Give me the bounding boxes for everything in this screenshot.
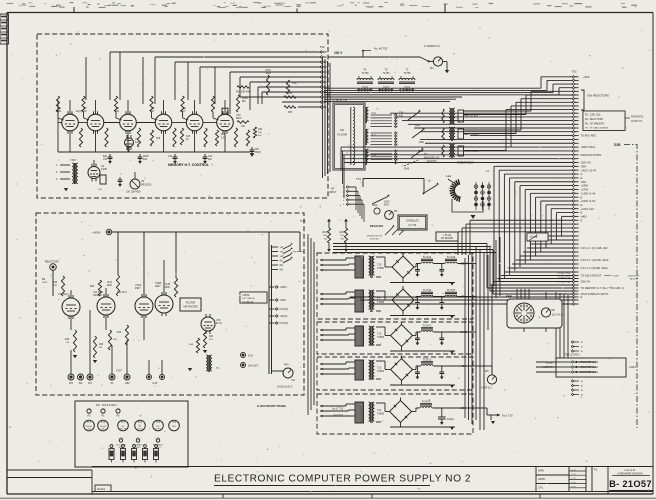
svg-text:-250V: -250V [280, 299, 287, 302]
svg-text:M4: M4 [430, 67, 434, 70]
svg-text:TX866: TX866 [377, 336, 385, 339]
svg-text:R32: R32 [258, 129, 263, 131]
svg-text:6.3V A.C. (2)CAB. 4&3A: 6.3V A.C. (2)CAB. 4&3A [581, 258, 609, 262]
svg-text:R36: R36 [99, 344, 104, 346]
svg-text:STABILAC: STABILAC [406, 219, 419, 223]
svg-text:TO MEMORY H.T. (No.7 T54 CA: TO MEMORY H.T. (No.7 T54 CAB. 4) [581, 286, 624, 290]
svg-text:FROM T57 No.12: FROM T57 No.12 [580, 372, 599, 374]
svg-text:Le4: Le4 [446, 174, 451, 178]
svg-text:+270V: +270V [581, 188, 589, 192]
svg-text:& ON FRONT PANEL: & ON FRONT PANEL [257, 404, 287, 408]
svg-text:DRN: DRN [538, 469, 544, 473]
svg-text:B- 21O57: B- 21O57 [609, 479, 652, 489]
svg-text:SW1: SW1 [384, 205, 390, 207]
svg-text:TC132: TC132 [447, 255, 456, 259]
svg-text:6.3V: 6.3V [152, 382, 157, 385]
svg-text:230 V: 230 V [334, 51, 343, 55]
svg-text:NETWORK: NETWORK [183, 305, 197, 309]
svg-text:TC737: TC737 [447, 288, 456, 292]
svg-text:6.3V: 6.3V [248, 355, 253, 358]
svg-text:ON BOARD: ON BOARD [441, 237, 454, 240]
svg-text:6.3V A.C (3)CAB. 5&4A: 6.3V A.C (3)CAB. 5&4A [581, 266, 609, 270]
svg-text:-280: -280 [124, 382, 130, 385]
svg-text:+660V MCA.: +660V MCA. [581, 145, 597, 149]
svg-text:RF4: RF4 [284, 364, 289, 367]
svg-text:W2: W2 [79, 382, 83, 385]
svg-text:HARDWARE DIVISION: HARDWARE DIVISION [617, 473, 642, 476]
svg-text:46N7: 46N7 [135, 288, 141, 290]
svg-text:CAB 1: CAB 1 [629, 365, 637, 369]
svg-text:DRUM MOTORS: DRUM MOTORS [581, 153, 602, 157]
svg-text:VR150/30: VR150/30 [141, 184, 152, 186]
svg-text:C.H.A.D.: C.H.A.D. [624, 468, 635, 472]
svg-text:SW6: SW6 [506, 295, 512, 299]
svg-text:100V: 100V [384, 201, 390, 204]
svg-text:E: E [581, 218, 583, 222]
svg-text:1000000: 1000000 [93, 295, 103, 297]
svg-text:100R: 100R [42, 282, 47, 284]
svg-text:FROM: FROM [243, 295, 250, 297]
svg-text:FIL. VOLTS ADJ.: FIL. VOLTS ADJ. [96, 403, 117, 407]
svg-text:No. 46 T53: No. 46 T53 [374, 47, 388, 51]
svg-text:R16: R16 [156, 138, 161, 140]
svg-text:360R: 360R [143, 156, 149, 158]
svg-text:TO No.7 T54: TO No.7 T54 [557, 273, 570, 275]
svg-text:C14: C14 [208, 156, 213, 158]
svg-text:E: E [581, 176, 583, 180]
svg-text:(2)310V HT: (2)310V HT [628, 276, 640, 278]
svg-text:ELECTRONIC COMPUTER POWER SUPP: ELECTRONIC COMPUTER POWER SUPPLY NO 2 [214, 474, 471, 485]
svg-text:TX860: TX860 [377, 412, 385, 415]
svg-text:A.C.: A.C. [372, 133, 377, 137]
svg-text:1K: 1K [186, 139, 189, 141]
svg-text:FROM T57 No.11: FROM T57 No.11 [580, 367, 599, 369]
svg-text:R18: R18 [221, 134, 226, 136]
svg-text:49 50 48: 49 50 48 [370, 239, 379, 241]
svg-text:E: E [581, 195, 583, 199]
svg-text:+250V: +250V [280, 286, 288, 289]
svg-text:AUTO TX: AUTO TX [631, 119, 642, 123]
svg-text:FLOOR: FLOOR [338, 133, 348, 137]
svg-text:SCALE: SCALE [97, 488, 106, 491]
svg-text:A.C.: A.C. [372, 111, 377, 115]
svg-text:R42: R42 [209, 336, 214, 338]
svg-text:VOLTS: VOLTS [120, 429, 127, 431]
svg-text:No.6 T51: No.6 T51 [334, 415, 344, 417]
svg-text:R11 15R 9W: R11 15R 9W [236, 91, 250, 94]
svg-text:10K: 10K [292, 81, 297, 85]
svg-text:+240V: +240V [581, 184, 589, 188]
svg-text:+80V: +80V [581, 215, 588, 219]
svg-text:C10: C10 [103, 159, 108, 161]
svg-text:No.1 T53: No.1 T53 [502, 414, 513, 418]
svg-text:R41: R41 [107, 281, 112, 284]
svg-text:CPL: CPL [538, 486, 544, 490]
svg-text:360R: 360R [255, 152, 261, 154]
svg-text:FROM FIL.: FROM FIL. [631, 115, 644, 119]
svg-text:TX868: TX868 [377, 301, 385, 304]
svg-text:REACTOR I: REACTOR I [45, 260, 60, 264]
svg-text:FIL TX(BO4): FIL TX(BO4) [243, 298, 256, 300]
svg-text:6YT8: 6YT8 [300, 221, 306, 223]
svg-text:FROM T57 No.10: FROM T57 No.10 [580, 362, 599, 364]
svg-text:-80V: -80V [581, 180, 587, 184]
svg-text:TL35R: TL35R [612, 276, 619, 278]
svg-text:FROM T58 T52: FROM T58 T52 [367, 236, 383, 238]
svg-text:ON: ON [340, 128, 344, 132]
svg-text:MEMORY H.T. CONTROL: MEMORY H.T. CONTROL [168, 163, 210, 167]
svg-text:ION REACTORS: ION REACTORS [587, 94, 609, 98]
svg-text:100R: 100R [52, 285, 57, 287]
svg-text:TEST: TEST [116, 371, 122, 373]
svg-text:6.3V A.C. (1) CAB. 2&3: 6.3V A.C. (1) CAB. 2&3 [581, 246, 609, 250]
svg-text:T52: T52 [320, 45, 325, 49]
svg-text:R39: R39 [117, 332, 122, 334]
svg-text:V11 6SL7: V11 6SL7 [58, 293, 69, 296]
svg-text:1M: 1M [99, 347, 102, 349]
svg-text:+130V O-4A: +130V O-4A [581, 191, 596, 195]
svg-text:R15: R15 [186, 136, 191, 138]
svg-text:TX750: TX750 [403, 72, 411, 75]
svg-text:W3: W3 [69, 382, 73, 385]
svg-text:T53: T53 [572, 70, 577, 74]
svg-text:CONT: CONT [137, 429, 143, 431]
svg-text:5.2K: 5.2K [221, 137, 226, 139]
svg-text:R20: R20 [340, 232, 345, 234]
svg-text:TO FIL: TO FIL [545, 362, 553, 365]
svg-text:1W: 1W [66, 342, 69, 344]
svg-text:R38: R38 [65, 339, 70, 341]
svg-text:8µF: 8µF [103, 156, 108, 158]
svg-text:6M: 6M [42, 279, 45, 281]
svg-text:APPD: APPD [538, 477, 545, 481]
svg-text:Dynamotor: Dynamotor [293, 250, 304, 253]
svg-text:E: E [581, 211, 583, 215]
svg-text:TX750: TX750 [382, 72, 390, 75]
svg-text:15K: 15K [288, 110, 293, 114]
svg-text:FIL. OF MEMORY: FIL. OF MEMORY [585, 122, 605, 125]
svg-text:0-600 D.C.: 0-600 D.C. [481, 387, 493, 390]
svg-text:+8V(S): +8V(S) [280, 315, 288, 318]
svg-text:FIL. REACTORS: FIL. REACTORS [585, 118, 603, 121]
svg-text:scale: scale [571, 478, 577, 480]
svg-text:TC731: TC731 [423, 288, 432, 292]
svg-text:V16A: V16A [135, 284, 141, 287]
svg-text:A: A [581, 172, 583, 176]
svg-text:-100V: -100V [460, 330, 468, 334]
svg-text:R27: R27 [255, 149, 260, 151]
svg-text:8µF: 8µF [208, 159, 213, 161]
svg-text:+80V: +80V [583, 75, 590, 79]
svg-text:1005: 1005 [265, 72, 271, 75]
svg-text:V16B: V16B [155, 282, 161, 285]
svg-text:-240V 1.5YR: -240V 1.5YR [581, 168, 596, 172]
svg-text:TF884: TF884 [377, 370, 385, 373]
svg-text:TF866: TF866 [377, 267, 385, 270]
svg-text:+100V 12A: +100V 12A [581, 207, 595, 211]
svg-text:100K: 100K [107, 285, 113, 287]
svg-text:R40: R40 [90, 286, 95, 288]
svg-text:TC472: TC472 [423, 323, 432, 327]
svg-text:scale: scale [571, 486, 577, 488]
svg-text:TO 80V. REG.: TO 80V. REG. [581, 134, 598, 138]
svg-text:+660V: +660V [92, 231, 101, 235]
svg-text:T54 (CONT): T54 (CONT) [564, 353, 579, 357]
svg-text:130V 4A: 130V 4A [581, 161, 592, 165]
svg-text:FIL. CAB. 2&3: FIL. CAB. 2&3 [585, 114, 601, 117]
svg-text:R66: R66 [419, 140, 424, 144]
svg-text:0-200 µA D.C.: 0-200 µA D.C. [277, 385, 294, 389]
svg-text:E: E [581, 203, 583, 207]
svg-text:CONT: CONT [155, 429, 161, 431]
svg-text:10K: 10K [241, 125, 246, 128]
svg-text:TO 310V ADJUST: TO 310V ADJUST [581, 274, 602, 278]
svg-text:scale: scale [571, 482, 577, 484]
svg-text:65N7: 65N7 [236, 117, 242, 120]
svg-text:4KVA STABILAC INPUT: 4KVA STABILAC INPUT [581, 292, 609, 296]
svg-text:6L7N: 6L7N [216, 323, 222, 325]
svg-text:+380V: +380V [460, 262, 469, 266]
svg-text:TX750: TX750 [361, 72, 369, 75]
svg-text:46N7: 46N7 [155, 286, 161, 288]
svg-text:INPUT: INPUT [329, 191, 337, 194]
svg-text:-80V: -80V [581, 164, 587, 168]
svg-text:100µF: 100µF [447, 418, 455, 421]
svg-text:scale: scale [571, 469, 577, 471]
svg-text:T-66Y: T-66Y [70, 160, 77, 162]
svg-text:R19: R19 [323, 232, 328, 234]
svg-text:IN CAB 2A: IN CAB 2A [243, 300, 254, 303]
svg-text:+50: +50 [460, 406, 465, 410]
svg-text:FIL. OF CAB.4 &DRUM: FIL. OF CAB.4 &DRUM [585, 127, 608, 130]
svg-text:No.17 T53: No.17 T53 [332, 409, 343, 411]
svg-text:6.3V(S): 6.3V(S) [280, 322, 289, 325]
svg-text:+610V O-6A: +610V O-6A [581, 199, 596, 203]
svg-text:R45: R45 [165, 283, 170, 286]
svg-text:D3B: D3B [614, 143, 621, 147]
svg-text:10K 10W R29: 10K 10W R29 [126, 192, 141, 194]
svg-text:TC812: TC812 [423, 357, 432, 361]
svg-text:200K: 200K [165, 287, 171, 289]
svg-text:V13 R44: V13 R44 [93, 291, 103, 294]
svg-text:6AL: 6AL [135, 141, 140, 144]
svg-text:DEGAUSS: DEGAUSS [370, 224, 383, 228]
svg-text:+ PLUG: + PLUG [443, 234, 452, 237]
svg-text:6.3V(S): 6.3V(S) [280, 308, 289, 311]
svg-text:(15V) 6(7): (15V) 6(7) [248, 366, 259, 368]
svg-text:R13: R13 [143, 159, 148, 161]
svg-text:RE1: RE1 [415, 123, 421, 127]
svg-text:P.L.: P.L. [594, 468, 599, 472]
svg-text:T51: T51 [356, 177, 361, 181]
svg-text:E: E [581, 295, 583, 299]
svg-text:scale: scale [571, 474, 577, 476]
svg-text:CV85: CV85 [101, 169, 107, 171]
svg-text:SW5: SW5 [404, 168, 410, 171]
svg-text:SW2: SW2 [372, 204, 378, 207]
svg-text:C12: C12 [168, 156, 173, 158]
svg-text:TC131: TC131 [423, 255, 432, 259]
svg-text:0-100MA D.C.: 0-100MA D.C. [424, 44, 441, 48]
svg-text:110 V A.C.: 110 V A.C. [552, 314, 564, 317]
svg-text:8M: 8M [242, 100, 245, 103]
svg-text:250V IN: 250V IN [581, 280, 590, 284]
svg-text:1.5 Y.B.: 1.5 Y.B. [408, 223, 417, 227]
svg-text:ADJUST: ADJUST [630, 278, 639, 281]
svg-text:W1: W1 [88, 382, 92, 385]
svg-text:V15: V15 [216, 319, 221, 322]
svg-text:R38: R38 [53, 282, 58, 284]
